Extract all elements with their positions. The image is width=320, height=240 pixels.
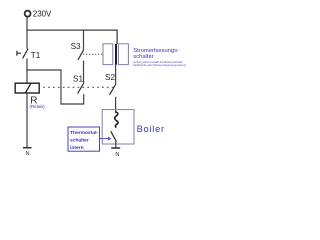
current sensor left half (103, 44, 113, 65)
wire from 230V terminal down to T1 (26, 17, 28, 49)
wire bold segment through sensor (115, 44, 117, 65)
arrow from label to thermostat switch (100, 137, 112, 141)
wire T1 bottom to relay (26, 59, 28, 84)
svg-text:bleibt/große oder Stromversorg: bleibt/große oder Stromversorgung gemess… (133, 63, 186, 67)
svg-text:intern: intern (70, 145, 84, 151)
heating element (115, 112, 118, 128)
wire dotted link sensor to S3 (80, 53, 102, 55)
thermostat label box (68, 127, 100, 151)
svg-text:N: N (26, 151, 30, 157)
switch thermostat blade (111, 131, 117, 142)
switch S2 blade (110, 85, 116, 95)
wire S3 column drop from top rail (83, 30, 85, 51)
wire S1 bottom segment (83, 94, 85, 104)
svg-text:(Relais): (Relais) (30, 104, 46, 109)
wire S3 bottom to S1 top (83, 61, 85, 85)
current sensor right half (118, 44, 128, 65)
switch S3 blade (78, 50, 84, 60)
svg-text:Boiler: Boiler (137, 124, 165, 134)
wire sensor to S2 (115, 65, 117, 86)
svg-text:S2: S2 (105, 73, 115, 82)
wire mechanical dotted link relay to S1 and S2 (43, 86, 114, 88)
switch S1 blade (78, 84, 84, 94)
svg-text:schalter: schalter (70, 138, 89, 144)
wire self-hold branch: horizontal from T1 column (26, 69, 61, 71)
wire self-hold branch: vertical (60, 69, 62, 104)
boiler box (102, 110, 134, 144)
svg-text:N: N (115, 152, 119, 158)
wire relay bottom to N (26, 93, 28, 147)
switch T1 (17, 49, 28, 59)
node N terminal left (23, 147, 32, 149)
relay coil R (15, 83, 39, 93)
svg-text:S1: S1 (73, 74, 83, 83)
svg-text:T1: T1 (31, 51, 41, 60)
node 230V terminal (25, 11, 31, 17)
wire top horizontal rail (26, 29, 117, 31)
svg-text:230V: 230V (33, 10, 52, 19)
wire self-hold branch: horizontal to S1 bottom (61, 103, 84, 105)
svg-text:Thermostat-: Thermostat- (70, 130, 99, 136)
svg-text:S3: S3 (71, 42, 81, 51)
wire thermostat bottom to N (115, 142, 117, 148)
node N terminal right (111, 147, 120, 149)
svg-text:schalter: schalter (133, 54, 153, 60)
wire S2 bottom into boiler (115, 97, 117, 113)
wire right column drop from rail through current sensor (116, 30, 118, 45)
